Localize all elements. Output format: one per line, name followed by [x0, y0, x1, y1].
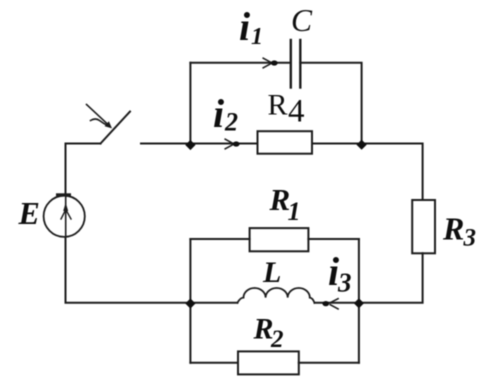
wire C to right corner: [300, 63, 361, 144]
resistor R1 body: [250, 228, 309, 251]
wire E bottom vertical: [66, 237, 191, 303]
source E arrow head: [63, 203, 68, 212]
switch arrowhead: [105, 121, 112, 128]
svg-text:3: 3: [337, 268, 352, 298]
capacitor C right plate: [299, 40, 301, 88]
wire R1 branch right: [308, 238, 359, 240]
svg-text:i: i: [213, 91, 224, 136]
svg-text:3: 3: [463, 225, 477, 252]
svg-text:E: E: [18, 195, 40, 231]
source E arrow shaft: [65, 196, 67, 237]
junction node C (right bottom): [354, 298, 364, 308]
wire R2 branch right: [299, 362, 359, 364]
current i2 arrow dot: [233, 141, 240, 146]
svg-text:2: 2: [270, 326, 284, 353]
svg-text:1: 1: [251, 24, 263, 50]
wire middle-right vertical: [358, 239, 360, 363]
svg-text:R: R: [268, 89, 288, 122]
current i3 arrow dot: [322, 301, 329, 306]
wire L to node C: [315, 302, 359, 304]
wire R3 bottom: [359, 253, 423, 302]
svg-text:i: i: [239, 4, 250, 49]
wire node B to R3 top: [362, 144, 423, 201]
switch blade: [101, 112, 131, 144]
wire top horizontal to C: [190, 62, 290, 64]
svg-text:4: 4: [288, 94, 305, 130]
capacitor C left plate: [290, 40, 292, 88]
source E polarity bar: [58, 193, 70, 196]
wire middle-left vertical: [189, 239, 191, 363]
svg-text:L: L: [262, 256, 281, 289]
inductor L coil: [237, 288, 314, 303]
capacitor branch left vertical: [189, 63, 191, 144]
switch actuation arrow straight line: [87, 105, 108, 125]
svg-text:1: 1: [288, 197, 301, 226]
wire R1 branch left: [190, 238, 249, 240]
junction node B (right middle): [357, 140, 367, 150]
wire switch to node A: [141, 143, 190, 145]
wire node A to R4: [190, 143, 257, 145]
wire L branch left: [190, 302, 237, 304]
wire R4 to node B: [312, 143, 362, 145]
current i1 arrow: [263, 58, 272, 68]
source E circle: [44, 196, 85, 237]
switch actuation arrow wavy line: [91, 119, 108, 126]
svg-text:R: R: [442, 211, 464, 247]
resistor R4 body: [258, 131, 313, 154]
junction node A (left middle): [185, 140, 195, 150]
current i1 arrow dot: [271, 60, 278, 65]
current i3 arrow (points left): [330, 298, 339, 309]
svg-text:2: 2: [224, 108, 238, 137]
current i2 arrow: [225, 139, 234, 149]
svg-text:C: C: [291, 3, 313, 38]
junction node D (left bottom): [185, 298, 195, 308]
wire left vertical top (E top to switch level): [66, 144, 101, 196]
resistor R3 body: [412, 200, 435, 253]
source E arrow barbs: [61, 211, 71, 220]
resistor R2 body: [238, 351, 299, 374]
wire R2 branch left: [190, 362, 238, 364]
